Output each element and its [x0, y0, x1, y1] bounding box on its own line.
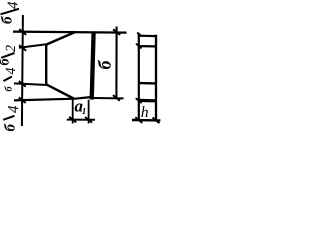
label b/4 top: letter b — [1, 16, 12, 24]
label b/4 bottom: digit 4 — [8, 106, 18, 113]
wire: bottom edge of part — [14, 97, 93, 101]
label b/4 top: digit 4 — [8, 2, 18, 9]
wire: side view divider 2 — [139, 82, 156, 85]
wire: side view divider 1 — [138, 45, 157, 48]
wire: bottom extension to b dim line — [93, 97, 124, 99]
tick: left dim line at b/4 — [19, 45, 26, 51]
circuit/drawing: weld edge preparation cross-section — [0, 0, 163, 136]
wire: top edge of part — [13, 31, 127, 34]
wire: a1 left extension line — [72, 100, 74, 124]
tick: a1 dim line left — [69, 117, 76, 123]
label b/2: letter b — [0, 58, 9, 65]
wire: a1 dimension line — [67, 119, 95, 121]
tick: b dim line bottom — [113, 95, 120, 101]
label b/4 bottom: fraction slash — [3, 116, 14, 120]
tick: left dim line at 3b/4 — [19, 81, 26, 87]
label b/4 top: fraction slash — [1, 9, 20, 15]
label b/4 middle: digit 4 — [6, 68, 15, 75]
wire: side view left edge — [138, 35, 140, 121]
wire: third horizontal line (3b/4 level) — [14, 83, 48, 85]
tick: a1 dim line right — [85, 117, 92, 123]
label h — [141, 106, 148, 117]
tick: b dim line top — [113, 29, 120, 35]
label b/4 middle: fraction slash — [4, 77, 13, 82]
tick: left dim line at top edge — [19, 29, 26, 35]
label b/2: digit 2 — [6, 45, 15, 52]
tick: h dim right — [153, 118, 160, 124]
wire: side view top edge — [138, 35, 157, 38]
wire: side view right edge — [155, 35, 157, 121]
label b/4 middle: letter b — [4, 86, 11, 91]
wire: b dimension line (vertical, right of part) — [115, 27, 117, 99]
label a1: letter a — [75, 103, 83, 111]
tick: divider 1 left end — [136, 44, 142, 49]
wire: groove vertical face — [45, 44, 47, 85]
wire: a1 right extension line — [88, 100, 90, 124]
tick: divider 3 left end — [136, 98, 142, 103]
tick: h dim left — [135, 117, 142, 123]
wire: groove lower bevel diagonal — [47, 85, 74, 99]
tick: side view top-left corner — [137, 33, 142, 37]
wire: left dimension line — [22, 15, 23, 126]
label b/2: fraction slash — [1, 53, 14, 58]
tick: left dim line at bottom edge — [19, 97, 26, 103]
wire: side view bottom edge (h dimension line) — [132, 119, 160, 122]
label b/4 bottom: letter b — [4, 124, 15, 132]
wire: second horizontal line (b/4 level) — [19, 44, 47, 48]
wire: side view divider 3 — [139, 99, 156, 103]
label b (vertical dim) — [98, 60, 111, 69]
label a1: subscript 1 — [82, 108, 85, 114]
wire: thick right edge of part — [92, 32, 94, 100]
wire: groove upper bevel diagonal — [46, 32, 75, 45]
